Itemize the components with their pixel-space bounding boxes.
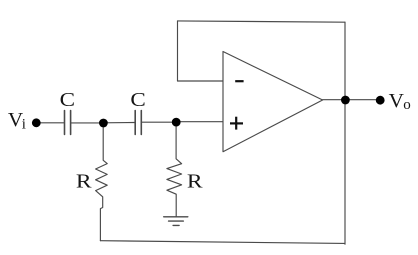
svg-text:o: o: [403, 97, 411, 113]
svg-text:C: C: [130, 89, 145, 111]
resistor R1: [96, 126, 108, 241]
svg-text:R: R: [187, 170, 203, 192]
capacitor C1: [65, 111, 71, 135]
wire node B to op-amp plus input: [176, 121, 223, 123]
capacitor C2: [135, 111, 141, 135]
wire feedback left vertical: [177, 21, 179, 81]
wire feedback top horizontal: [178, 21, 346, 22]
node Vo terminal: [376, 96, 385, 105]
ground: [164, 217, 188, 226]
op-amp inverting input marker: [235, 80, 243, 82]
node Vi terminal: [32, 118, 41, 127]
wire minus input feedback horizontal: [178, 80, 223, 82]
wire feedback right vertical: [344, 22, 346, 244]
node output junction: [341, 96, 350, 105]
svg-text:V: V: [389, 90, 405, 112]
resistor R2: [167, 126, 182, 217]
wire op-amp output: [323, 99, 380, 101]
wire node A to C2: [103, 122, 135, 124]
wire C2 to node B: [142, 121, 176, 123]
op-amp non-inverting input marker: [230, 117, 243, 130]
op-amp U1: [223, 52, 323, 152]
svg-text:R: R: [76, 170, 92, 192]
svg-text:C: C: [60, 89, 75, 111]
node B junction: [172, 118, 181, 127]
wire Vi to C1: [40, 122, 64, 124]
node A junction: [99, 119, 108, 128]
wire bottom return: [100, 241, 345, 244]
svg-text:i: i: [22, 116, 26, 132]
wire C1 to node A: [71, 122, 103, 124]
